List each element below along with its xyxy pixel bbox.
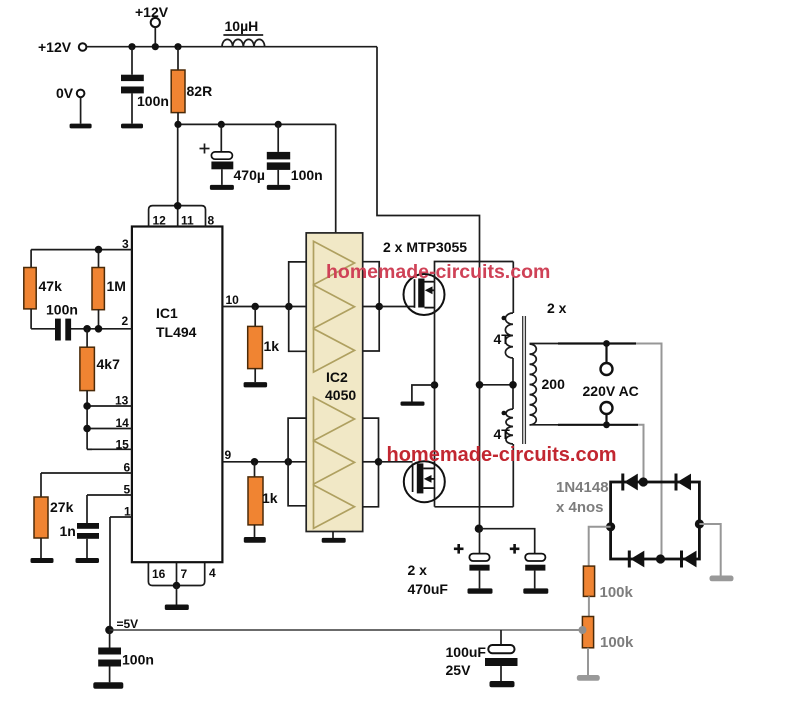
capacitor 470uF no1 — [454, 529, 490, 589]
wire VCC to IC2 — [335, 124, 337, 232]
svg-text:220V AC: 220V AC — [583, 383, 639, 399]
svg-text:1k: 1k — [264, 338, 280, 354]
wire secondary bottom — [530, 425, 644, 482]
diode D2 — [676, 474, 691, 491]
pin 1 wire — [110, 505, 132, 519]
wire between 100k — [588, 596, 590, 616]
diode D3 — [629, 551, 644, 568]
svg-text:IC1: IC1 — [156, 305, 178, 321]
resistor 1k (pin 10) — [248, 307, 280, 383]
node bridge bottom — [656, 554, 665, 563]
svg-text:4T: 4T — [494, 426, 511, 442]
capacitor 100n (input) — [121, 47, 169, 124]
transistor Q1 MTP3055 top — [404, 274, 445, 315]
IC2 ground — [322, 532, 346, 543]
IC U1 TL494 body — [132, 227, 223, 563]
ground 27k — [31, 558, 54, 563]
svg-text:x 4nos: x 4nos — [556, 499, 604, 516]
node source junction — [431, 381, 439, 389]
svg-text:0V: 0V — [56, 85, 74, 101]
capacitor 470u electrolytic — [200, 124, 265, 184]
pin 10 wire — [222, 293, 311, 310]
wire gate Q1 — [379, 306, 414, 308]
svg-text:4: 4 — [209, 566, 216, 580]
label 1N4148 x 4nos — [556, 479, 609, 516]
svg-text:25V: 25V — [446, 662, 472, 678]
wire Q1 drain to transformer — [435, 262, 514, 282]
wire bridge right to ground — [699, 524, 720, 576]
wire top feed to transformer center tap — [377, 47, 480, 529]
svg-text:200: 200 — [542, 376, 566, 392]
svg-text:4T: 4T — [494, 331, 511, 347]
svg-text:13: 13 — [115, 394, 129, 408]
ground 100n 5V — [93, 682, 123, 689]
svg-text:4k7: 4k7 — [97, 356, 121, 372]
IC U2 4050 body — [306, 233, 363, 532]
svg-text:2 x: 2 x — [547, 300, 567, 316]
svg-text:homemade-circuits.com: homemade-circuits.com — [387, 444, 617, 466]
wire source rail Q1-Q2 — [434, 282, 436, 507]
capacitor 100uF 25V — [446, 630, 518, 681]
wire VCC row — [178, 123, 336, 125]
svg-text:9: 9 — [225, 448, 232, 462]
svg-text:100n: 100n — [137, 93, 169, 109]
capacitor 1n — [60, 495, 100, 558]
svg-text:100n: 100n — [291, 167, 323, 183]
buffer triangle 3 — [314, 329, 355, 372]
svg-text:1N4148: 1N4148 — [556, 479, 609, 496]
wire center tap — [476, 381, 517, 389]
node filter caps junction — [475, 525, 483, 533]
ground 100k — [577, 675, 600, 681]
ground 470uF no2 — [523, 588, 548, 593]
wire secondary top — [530, 344, 662, 560]
svg-text:+12V: +12V — [135, 4, 169, 20]
svg-text:4050: 4050 — [325, 387, 356, 403]
transistor Q2 MTP3055 bottom — [404, 461, 445, 502]
pin 9 wire — [222, 448, 311, 466]
wire gate Q2 — [379, 461, 413, 463]
ground 100n vcc — [267, 185, 290, 190]
svg-text:11: 11 — [181, 214, 194, 228]
ground input cap — [121, 124, 143, 129]
wire +5V rail — [109, 629, 420, 631]
input bracket top group — [289, 262, 307, 351]
capacitor 100n (5V rail) — [98, 630, 154, 682]
pin 2 wire — [71, 314, 132, 329]
svg-text:2 x MTP3055: 2 x MTP3055 — [383, 239, 467, 255]
input bracket bottom group — [288, 418, 306, 506]
IC1 bottom pin bracket pins 16 7 4 — [148, 563, 216, 605]
node bridge right — [695, 519, 704, 528]
capacitor 100n (vcc) — [267, 124, 323, 184]
node junction dots top rail — [128, 43, 135, 50]
svg-text:1: 1 — [124, 505, 131, 519]
svg-text:100n: 100n — [46, 302, 78, 318]
wire pin1 to +5V node — [109, 517, 111, 630]
svg-text:2: 2 — [122, 314, 129, 328]
resistor 100k lower — [582, 617, 634, 652]
wire to cap2 — [479, 529, 535, 554]
capacitor 100n (pin 2) — [46, 302, 78, 341]
pin 13 wire — [87, 394, 132, 408]
pin 14 wire — [87, 416, 132, 430]
diode D1 — [623, 474, 638, 491]
ground IC1 pin7 — [165, 605, 189, 611]
node bridge left — [606, 522, 615, 531]
transformer primary straight segment — [512, 358, 514, 409]
IC1 top pin bracket pins 12 11 8 — [149, 202, 215, 228]
label 2 x 470uF — [408, 562, 449, 597]
wire Q2 drain to transformer — [435, 506, 514, 508]
svg-text:10: 10 — [226, 293, 240, 307]
resistor 1k (pin 9) — [248, 462, 278, 537]
capacitor 470uF no2 — [510, 544, 546, 588]
pin 5 wire — [87, 483, 132, 497]
ground sources — [401, 385, 435, 406]
svg-text:3: 3 — [122, 237, 129, 251]
output bracket top group — [363, 262, 383, 351]
phase dot top — [502, 316, 507, 321]
pin 15 wire — [87, 438, 132, 452]
phase dot bottom — [502, 411, 507, 416]
transformer secondary winding 200 — [530, 344, 566, 425]
resistor 82R — [171, 47, 212, 125]
buffer triangle 5 — [314, 441, 355, 484]
node 5V at divider — [579, 626, 587, 634]
svg-text:82R: 82R — [187, 83, 213, 99]
svg-text:2 x: 2 x — [408, 562, 428, 578]
bridge rectifier outline — [611, 482, 700, 559]
output bracket bottom group — [363, 418, 383, 507]
terminal +12V top — [135, 4, 169, 47]
svg-text:IC2: IC2 — [326, 369, 348, 385]
terminal 0V — [56, 85, 84, 124]
svg-text:homemade-circuits.com: homemade-circuits.com — [326, 261, 550, 283]
terminal 220V top — [601, 340, 613, 375]
svg-text:47k: 47k — [39, 278, 63, 294]
buffer triangle 2 — [314, 285, 355, 328]
buffer triangle 1 — [314, 241, 355, 284]
svg-text:15: 15 — [116, 438, 130, 452]
transformer primary top winding 4T — [494, 262, 514, 359]
ground 0V — [70, 124, 92, 129]
svg-text:100n: 100n — [122, 652, 154, 668]
resistor 47k — [24, 250, 62, 329]
resistor 4k7 — [80, 329, 120, 450]
svg-text:8: 8 — [208, 214, 215, 228]
terminal +12V left — [38, 39, 86, 55]
svg-text:5: 5 — [124, 483, 131, 497]
wire bridge left to divider — [589, 527, 611, 566]
resistor 1M — [92, 246, 126, 329]
svg-text:100uF: 100uF — [446, 644, 487, 660]
diode D4 — [682, 551, 697, 568]
pin 3 wire — [31, 237, 132, 251]
transformer primary bottom winding 4T — [494, 409, 514, 507]
svg-text:10µH: 10µH — [225, 18, 259, 34]
transformer core — [523, 316, 526, 444]
node +5V — [105, 617, 138, 634]
wire 100k to ground — [587, 648, 589, 675]
ground 470uF no1 — [468, 588, 493, 593]
svg-text:6: 6 — [124, 461, 131, 475]
svg-text:100k: 100k — [600, 634, 634, 651]
node pin2 dots — [83, 325, 91, 333]
wire +12V rail — [86, 46, 377, 48]
svg-text:100k: 100k — [600, 584, 634, 601]
svg-text:27k: 27k — [50, 499, 74, 515]
ground 100uF — [490, 681, 515, 687]
terminal 220V bottom — [601, 402, 613, 428]
svg-text:16: 16 — [152, 567, 166, 581]
resistor 100k upper — [583, 566, 633, 601]
ground 1k pin9 — [244, 537, 266, 543]
svg-text:1k: 1k — [262, 490, 278, 506]
ground bridge right — [710, 576, 734, 582]
ground 1n — [76, 558, 100, 563]
ground 1k pin10 — [244, 382, 268, 387]
buffer triangle 4 — [314, 397, 355, 440]
svg-text:1n: 1n — [60, 523, 76, 539]
svg-text:1M: 1M — [107, 278, 126, 294]
buffer triangle 6 — [314, 485, 355, 528]
svg-text:470µ: 470µ — [234, 167, 265, 183]
svg-text:12: 12 — [153, 214, 167, 228]
svg-text:7: 7 — [181, 567, 188, 581]
inductor 10uH — [222, 18, 265, 47]
wire VCC to IC1 — [177, 124, 179, 205]
pin 6 wire — [41, 461, 132, 475]
svg-text:470uF: 470uF — [408, 581, 449, 597]
svg-text:14: 14 — [116, 416, 130, 430]
svg-text:TL494: TL494 — [156, 324, 197, 340]
resistor 27k — [34, 473, 74, 558]
node bridge top — [639, 477, 648, 486]
ground 470u — [210, 185, 234, 190]
node dots VCC row — [174, 121, 181, 128]
svg-text:=5V: =5V — [117, 617, 139, 631]
svg-text:+12V: +12V — [38, 39, 72, 55]
